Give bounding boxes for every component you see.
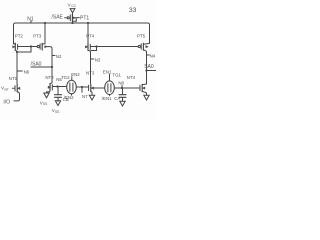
Vcc supply symbol [70, 9, 75, 13]
wire: diode connection L to PT2 drain [17, 47, 31, 53]
svg-text:N8: N8 [118, 80, 124, 85]
transistor PT2 (PMOS, diode-connected) [13, 43, 18, 52]
node N1 label tick [30, 21, 32, 23]
svg-text:I/O: I/O [3, 99, 10, 105]
wire: EN2 to TG2 [71, 77, 73, 81]
Vref gate lead (dashed) [12, 87, 14, 89]
svg-text:CA: CA [114, 96, 120, 101]
svg-text:TG2: TG2 [61, 75, 70, 80]
svg-text:PT4: PT4 [86, 34, 95, 39]
svg-text:PT3: PT3 [33, 34, 42, 39]
wire: TG1 to /EN1 [109, 95, 111, 96]
transistor PT1 (PMOS, gate /SAE) [67, 14, 76, 21]
svg-text:TG1: TG1 [112, 72, 121, 77]
junction on bus at PT4 [87, 22, 89, 24]
svg-text:ref: ref [4, 87, 8, 91]
junction at node N7 [81, 86, 83, 88]
transistor PT5 (PMOS mirror) [138, 43, 149, 52]
svg-text:N6: N6 [24, 70, 30, 75]
svg-text:NT4: NT4 [127, 75, 136, 80]
svg-text:NT3: NT3 [86, 70, 95, 75]
junction at capacitor CA tap [121, 87, 123, 89]
junction at /SA0 tap [51, 66, 53, 68]
/SAE gate lead (dashed) [65, 17, 67, 19]
wire: PT4 drain / NT3 drain column node N3 [90, 52, 92, 84]
svg-text:N2: N2 [56, 54, 62, 59]
junction on bus at PT3 [44, 22, 46, 24]
svg-text:/SAE: /SAE [52, 15, 64, 21]
svg-text:PT5: PT5 [137, 34, 146, 39]
ground below CB [55, 101, 60, 106]
svg-text:PT1: PT1 [80, 15, 89, 21]
wire: NT2 gate to TG2 [53, 86, 67, 88]
Vss label [40, 100, 47, 106]
ground below NT4 [144, 95, 149, 100]
node N8 label tick [121, 85, 123, 87]
transistor PT3 (PMOS mirror) [37, 43, 47, 50]
wire: PT4 source from bus [87, 23, 89, 43]
node N4 label tick [147, 54, 150, 56]
wire: PT3 drain to node N2 column [47, 47, 52, 83]
junction at PT2 drain [16, 51, 18, 53]
svg-text:NT1: NT1 [9, 76, 18, 81]
/SA0 output leader line [31, 66, 52, 68]
svg-text:33: 33 [129, 7, 137, 14]
wire: PT4/PT5 gate line [91, 46, 139, 48]
transistor PT4 (PMOS, diode-connected) [85, 43, 90, 53]
svg-text:/EN1: /EN1 [102, 96, 112, 101]
transistor NT4 (NMOS) [140, 84, 147, 95]
capacitor CA [119, 95, 126, 102]
ground below CA [120, 101, 125, 106]
svg-text:V: V [68, 2, 71, 7]
junction on gate line [30, 45, 32, 47]
junction on bus at PT1 [71, 22, 73, 24]
ground below NT2 [44, 93, 49, 98]
PT1 label pointer [77, 17, 79, 19]
node N7 stub [81, 87, 83, 92]
wire: tap down to capacitor CB [57, 87, 59, 95]
node N6 label tick [17, 70, 22, 72]
Vcc label [68, 2, 77, 8]
Vss label [52, 108, 59, 114]
wire: PT5 drain leg node N4 [146, 52, 148, 84]
junction on right gate line [95, 45, 97, 47]
wire: Vcc to PT1 source [72, 13, 74, 15]
wire: EN1 to TG1 [109, 74, 111, 81]
svg-text:EN1: EN1 [103, 69, 112, 74]
svg-text:N4: N4 [150, 54, 156, 59]
transistor NT1 (NMOS, gate Vref) [15, 85, 20, 94]
wire: NT1 source to I/O line [14, 94, 20, 101]
svg-text:/SA0: /SA0 [31, 61, 42, 67]
wire: top supply bus node N1 [14, 23, 150, 44]
svg-text:SA0: SA0 [144, 64, 154, 70]
node N3 label tick [91, 58, 94, 60]
svg-text:SS: SS [43, 102, 47, 106]
ground below NT3 [89, 95, 94, 100]
wire: TG2 to NT3 gate (node N7) [76, 86, 88, 88]
svg-text:N1: N1 [27, 17, 34, 23]
transistor NT3 (NMOS) [89, 84, 94, 95]
junction at capacitor CB tap [56, 85, 58, 87]
capacitor CB [55, 95, 62, 102]
svg-text:CC: CC [71, 4, 76, 8]
Vref label [1, 86, 8, 92]
svg-text:SS: SS [55, 110, 59, 114]
transfer gate TG1 [105, 81, 115, 95]
svg-text:PT2: PT2 [15, 34, 24, 39]
svg-text:/EN2: /EN2 [64, 95, 74, 100]
wire: NT3 to TG1 [93, 87, 104, 89]
wire: diode connection L to PT4 drain [91, 47, 97, 51]
wire: PT1 drain to bus [72, 22, 74, 24]
svg-text:N3: N3 [95, 58, 101, 63]
junction at SA0 tap [145, 69, 147, 71]
node N2 label tick [52, 55, 55, 57]
transfer gate TG2 [67, 80, 77, 94]
wire: tap down to capacitor CA [122, 88, 124, 94]
wire: TG2 to /EN2 [71, 94, 73, 95]
svg-text:NT2: NT2 [45, 75, 54, 80]
wire: PT2/PT3 gate line [18, 46, 37, 48]
svg-text:EN2: EN2 [71, 72, 80, 77]
svg-text:N7: N7 [82, 94, 88, 99]
wire: PT2 drain leg down to NT1 (node N6) [16, 52, 18, 84]
wire: TG1 to NT4 gate (node N8) [114, 87, 139, 89]
SA0 output leader line [147, 70, 157, 72]
transistor NT2 (NMOS, gate on storage node) [47, 83, 53, 93]
wire: PT3 source from bus [44, 23, 46, 44]
